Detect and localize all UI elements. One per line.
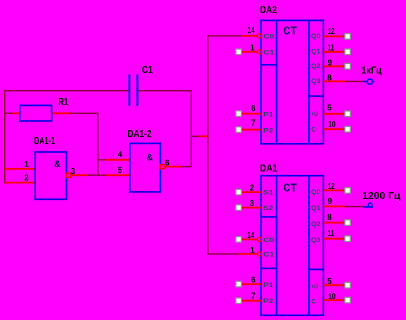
- svg-text:Q0: Q0: [311, 33, 321, 40]
- DA1 pin S2 input, pin 3: [241, 207, 261, 209]
- svg-text:5: 5: [118, 166, 123, 175]
- svg-text:14: 14: [247, 231, 254, 240]
- svg-text:C1: C1: [142, 65, 153, 76]
- svg-text:DA1-1: DA1-1: [34, 136, 55, 147]
- svg-text:&: &: [54, 160, 60, 171]
- svg-text:Q1: Q1: [311, 49, 321, 56]
- DA1 pin C1 clock input, pin 1: [207, 253, 239, 255]
- DA1 pin P1 input, pin 6: [241, 283, 261, 285]
- svg-text:P2: P2: [263, 298, 273, 305]
- 1200 Hz output terminal: [364, 206, 373, 208]
- DA1 pin P2 input, pin 7: [241, 300, 261, 302]
- svg-text:4: 4: [118, 150, 123, 159]
- svg-text:6: 6: [165, 159, 170, 168]
- svg-text:C1: C1: [263, 252, 275, 259]
- wire R1 right lead: [51, 112, 71, 114]
- DA2 output Q1, pin 11: [323, 51, 344, 53]
- svg-text:Q1: Q1: [311, 205, 321, 212]
- svg-text:Q2: Q2: [311, 221, 321, 228]
- svg-text:3: 3: [71, 167, 76, 176]
- DA1 output Q1, pin 9, 1200 Hz output: [323, 205, 345, 207]
- DA2 output Q3, pin 8, 1 kHz output: [323, 80, 347, 82]
- svg-text:Q0: Q0: [311, 189, 321, 196]
- svg-text:2: 2: [250, 184, 255, 193]
- wire to DA1.2 pin 4: [97, 159, 106, 161]
- svg-text:CT: CT: [283, 182, 297, 196]
- svg-text:S1: S1: [263, 190, 273, 197]
- DA1 output Q2, pin 8: [323, 222, 344, 224]
- svg-text:R1: R1: [58, 97, 68, 108]
- svg-text:S2: S2: [263, 205, 273, 212]
- svg-text:C1: C1: [263, 49, 275, 56]
- svg-text:5: 5: [327, 277, 332, 286]
- wire DA1.1 pin 1 input: [5, 168, 36, 170]
- svg-text:12: 12: [328, 27, 335, 36]
- DA2 power pin +U, pin 5: [323, 113, 344, 115]
- wire feedback left vertical: [4, 90, 6, 183]
- wire R1 to DA1.2 inputs vertical: [97, 113, 99, 176]
- svg-text:P1: P1: [263, 112, 273, 119]
- svg-text:7: 7: [251, 118, 256, 127]
- svg-text:CT: CT: [283, 24, 297, 38]
- wire DA1.2 output to corner: [164, 166, 181, 168]
- svg-text:P2: P2: [263, 128, 273, 135]
- svg-text:&: &: [147, 153, 153, 164]
- svg-text:10: 10: [328, 120, 336, 129]
- svg-text:+U: +U: [311, 284, 318, 291]
- wire R1 left lead: [4, 112, 13, 114]
- 1 kHz output terminal: [364, 81, 368, 83]
- DA1 power pin +U, pin 5: [323, 284, 344, 286]
- svg-text:P1: P1: [263, 282, 273, 289]
- DA2 pin P1 input, pin 6: [241, 113, 261, 115]
- svg-text:1: 1: [250, 43, 255, 52]
- svg-text:9: 9: [328, 58, 333, 67]
- svg-text:12: 12: [328, 182, 335, 191]
- gate DA1.1 output inversion bubble: [67, 173, 71, 177]
- svg-text:5: 5: [327, 104, 332, 113]
- wire DA1.1 pin 2 input: [5, 182, 36, 184]
- svg-text:1: 1: [250, 246, 255, 255]
- svg-text:C: C: [311, 299, 316, 306]
- resistor R1: [20, 105, 52, 121]
- svg-text:1: 1: [24, 160, 29, 169]
- logic gate DA1.2: [130, 143, 161, 192]
- svg-text:11: 11: [328, 229, 335, 238]
- capacitor C1: [128, 75, 130, 106]
- svg-text:DA1: DA1: [260, 163, 278, 174]
- svg-text:Q3: Q3: [311, 237, 321, 244]
- svg-text:11: 11: [328, 43, 335, 52]
- svg-text:DA2: DA2: [260, 5, 277, 16]
- wire junction to clock bus: [191, 135, 200, 137]
- wire top to C1 left: [4, 90, 129, 92]
- svg-text:Q3: Q3: [311, 78, 321, 85]
- svg-text:1кГц: 1кГц: [361, 66, 382, 77]
- svg-text:14: 14: [248, 26, 255, 35]
- counter DA1 body: [261, 176, 323, 316]
- wire right vertical from C1 to gate output: [190, 90, 192, 167]
- counter DA2 body: [261, 20, 323, 143]
- svg-text:3: 3: [250, 199, 255, 208]
- DA2 output Q0, pin 12: [323, 35, 344, 37]
- DA1 ground pin C, pin 10: [323, 299, 344, 301]
- DA2 pin C0 clock input, pin 14: [207, 35, 241, 37]
- wire DA1.1 output to DA1.2 pin 5: [70, 174, 89, 176]
- svg-text:C0: C0: [263, 33, 275, 40]
- svg-text:6: 6: [251, 104, 256, 113]
- logic gate DA1.1: [35, 152, 66, 199]
- svg-text:C0: C0: [263, 237, 275, 244]
- DA2 pin P2 input, pin 7: [241, 129, 261, 131]
- DA1 output Q0, pin 12: [323, 189, 344, 191]
- DA2 pin C1 input, pin 1: [241, 51, 257, 53]
- svg-text:8: 8: [327, 74, 332, 83]
- svg-text:1200 Гц: 1200 Гц: [362, 191, 401, 202]
- svg-text:2: 2: [24, 173, 29, 182]
- DA1 pin C0 input, pin 14: [241, 238, 257, 240]
- DA1 pin S1 input, pin 2: [241, 191, 261, 193]
- svg-text:9: 9: [328, 197, 333, 206]
- svg-text:6: 6: [251, 275, 256, 284]
- DA1 output Q3, pin 11: [323, 238, 344, 240]
- svg-text:8: 8: [327, 213, 332, 222]
- wire clock bus vertical: [207, 35, 209, 254]
- gate DA1.2 output inversion bubble: [160, 165, 164, 169]
- svg-text:DA1-2: DA1-2: [128, 129, 152, 140]
- DA2 ground pin C, pin 10: [323, 128, 344, 130]
- svg-text:C: C: [311, 127, 316, 134]
- svg-text:10: 10: [328, 292, 336, 301]
- svg-text:+U: +U: [311, 111, 318, 118]
- wire C1 right to corner: [138, 90, 192, 92]
- svg-text:7: 7: [251, 292, 256, 301]
- svg-text:Q2: Q2: [311, 63, 321, 70]
- DA2 output Q2, pin 9: [323, 65, 344, 67]
